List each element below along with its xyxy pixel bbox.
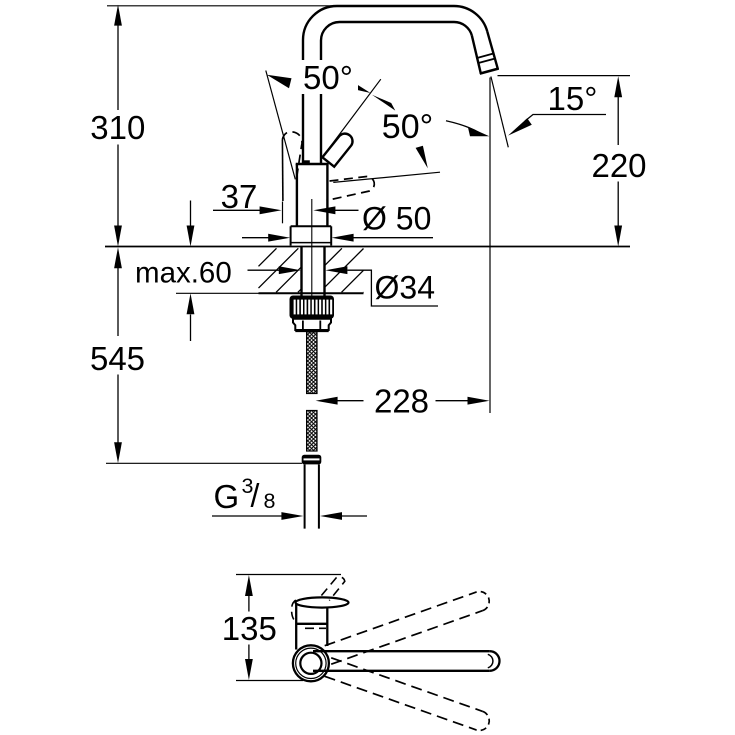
spout aerator joint band upper <box>476 53 494 58</box>
15deg arrowhead <box>508 118 532 135</box>
diameter 34 leader <box>347 270 438 306</box>
plan lever cap ellipse <box>296 597 349 607</box>
plan spout bar top line <box>313 650 490 652</box>
deck underside line <box>259 292 364 294</box>
dimension diameter 50 left line <box>242 237 269 239</box>
dimension 135 line lower <box>248 645 250 661</box>
lever hinge nub <box>303 160 310 164</box>
braided hose lower segment <box>307 411 317 452</box>
extension line hose end <box>106 462 302 464</box>
plan lever alternate dashes left <box>292 600 296 622</box>
50deg arc arrowhead right <box>346 78 370 93</box>
spout top outer line <box>337 5 454 7</box>
spout tip end edge <box>480 69 499 74</box>
svg-text:Ø 50: Ø 50 <box>362 201 431 237</box>
dimension 228 left line <box>337 400 364 402</box>
dimension G3/8 right line <box>342 515 368 517</box>
dimension max.60 outer arrow bottom <box>190 315 192 342</box>
lever handle dashed open position <box>327 176 375 200</box>
plan body dashed line below divider <box>305 627 326 629</box>
spout right bend outer <box>454 6 487 32</box>
threaded shank left <box>300 247 302 297</box>
spout down-leg right wall <box>487 32 498 70</box>
hose end ferrule <box>302 455 322 465</box>
second 50deg arc arrowhead <box>468 127 490 137</box>
plan body left wall <box>295 602 297 650</box>
lever handle solid <box>322 134 352 167</box>
svg-text:220: 220 <box>591 147 646 184</box>
plan view extension line bottom <box>236 680 303 682</box>
lever handle dashed closed position left edge <box>281 140 284 202</box>
base flange left <box>290 226 292 245</box>
15deg leader line <box>525 115 606 122</box>
base flange top <box>291 225 332 227</box>
centreline through nut collar <box>311 321 313 331</box>
dimension 310 line upper <box>117 26 119 111</box>
spout right bend inner <box>454 22 472 36</box>
max.60 leader line <box>248 269 281 271</box>
worktop hatching <box>259 248 277 266</box>
plan swivel outer circle <box>293 645 329 681</box>
dimension 545 line upper <box>117 268 119 336</box>
svg-text:/: / <box>251 478 260 514</box>
body top edge <box>296 163 329 165</box>
dimension text 50deg first <box>299 60 358 94</box>
svg-text:Ø34: Ø34 <box>375 270 435 306</box>
dimension 37 right line <box>335 209 359 211</box>
spout aerator joint band lower <box>478 58 496 63</box>
spout down-leg left wall <box>472 36 481 74</box>
svg-text:310: 310 <box>90 109 145 146</box>
threaded shank right <box>323 247 325 297</box>
svg-text:G: G <box>214 478 240 515</box>
base flange right <box>330 226 332 245</box>
body right wall <box>326 164 328 226</box>
svg-text:8: 8 <box>264 489 276 513</box>
svg-text:135: 135 <box>222 610 277 647</box>
plan spout dashed lower position <box>331 658 483 712</box>
svg-text:545: 545 <box>90 340 145 377</box>
dimension 220 line lower <box>617 182 619 227</box>
connection tail left wall <box>304 465 306 529</box>
lever swing line closed <box>266 71 296 180</box>
base plate seam <box>291 242 332 244</box>
svg-text:15°: 15° <box>548 80 598 117</box>
body left wall <box>296 164 298 226</box>
connection tail right wall <box>318 465 320 529</box>
svg-text:50°: 50° <box>303 59 353 96</box>
lever handle dashed closed position cap and right edge <box>282 132 302 179</box>
dimension 135 line upper <box>248 596 250 612</box>
plan view extension line top <box>236 574 341 576</box>
dimension max.60 outer arrow top <box>190 201 192 227</box>
deck surface line <box>105 246 630 248</box>
extension line top (spout height) <box>107 5 339 7</box>
plan spout bar inner cap arc <box>488 654 493 668</box>
dimension 310 line lower <box>117 145 119 227</box>
spout top inner line <box>340 21 455 23</box>
mounting nut bottom edge <box>295 330 328 332</box>
plan spout dashed upper position <box>325 592 477 646</box>
dimension 228 right line <box>436 400 468 402</box>
second 50deg arc to spout centreline <box>446 121 479 133</box>
spout outlet centreline vertical <box>489 78 491 414</box>
dimension diameter 50 right line <box>353 237 434 239</box>
svg-text:228: 228 <box>374 382 429 419</box>
plan raised lever dashes <box>321 577 344 601</box>
second 50deg arrowhead onto axis line <box>416 146 428 169</box>
mounting nut lower collar <box>293 319 331 330</box>
braided hose upper segment <box>307 332 317 394</box>
plan spout bar end cap <box>490 651 500 671</box>
plan swivel bore circle <box>300 653 321 674</box>
second 50deg reverse arrowhead <box>372 95 395 111</box>
dimension 545 line lower <box>117 375 119 443</box>
svg-text:50°: 50° <box>382 108 433 146</box>
mounting nut knurled ring <box>290 296 335 319</box>
dimension G3/8 left line <box>212 515 282 517</box>
dimension 37 extension line <box>282 202 284 224</box>
lever swing line open <box>323 79 381 157</box>
open lever axis line horizontal <box>333 172 440 182</box>
dimension 37 left line <box>213 209 261 211</box>
spout tube vertical leg outer wall <box>302 40 304 164</box>
max.60 / diameter 34 right arrow <box>325 266 347 274</box>
svg-text:max.60: max.60 <box>135 256 232 289</box>
dimension 220 line upper <box>617 97 619 145</box>
svg-text:37: 37 <box>221 178 258 215</box>
extension line spout tip level <box>498 75 631 77</box>
spout left bend inner <box>321 22 340 41</box>
spout left bend outer <box>303 6 337 40</box>
spout tube vertical leg inner wall <box>320 41 322 165</box>
plan spout bar bottom line <box>313 670 490 672</box>
supply pipe walls through nut <box>302 321 304 331</box>
plan body right wall <box>326 607 328 646</box>
spout outlet 15deg axis line <box>491 77 508 148</box>
faucet centreline <box>311 199 313 296</box>
plan body divider <box>296 623 327 625</box>
plan swivel middle ring <box>296 648 326 678</box>
50deg arc arrowhead left <box>267 75 292 89</box>
deck underside extension line <box>176 292 259 294</box>
